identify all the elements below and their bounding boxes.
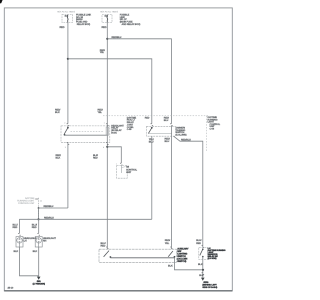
svg-text:BLU: BLU [164,119,169,122]
fuse F2 [106,15,109,23]
dimmer switch dashed box [147,126,176,136]
border frame [4,8,232,291]
node connector junction [38,207,40,209]
svg-text:RED: RED [196,242,201,245]
relay pin 1 tick [106,124,109,126]
aux switch pins [202,246,205,248]
ground G1 arrow [37,277,41,280]
svg-text:(LT FENDER): (LT FENDER) [33,282,46,285]
node branch junction on B [106,146,108,148]
svg-text:BLK: BLK [33,250,38,253]
wire branch to sensor [107,147,121,163]
svg-text:BLK: BLK [198,263,203,266]
fuse F1 [66,15,69,23]
sensor leader [122,166,126,169]
svg-text:CONTROL UNIT: CONTROL UNIT [18,202,35,205]
left headlight drop [18,219,20,233]
wire A lower: relay to corner y208 [67,143,69,209]
right headlight drop [38,219,40,233]
ground G2 arrow [201,278,205,281]
headlamp switch dashed box [99,249,176,262]
wire RH to ground [38,247,40,277]
wire H3 y208 [39,207,68,209]
svg-text:UNIT: UNIT [126,171,132,174]
svg-text:(LH SIDE): (LH SIDE) [208,257,217,260]
svg-text:RED: RED [101,245,106,248]
svg-text:RED/BLU: RED/BLU [112,36,122,39]
dimmer wire C through [170,126,172,137]
svg-text:BLK: BLK [199,274,204,277]
svg-text:AND RELAY BOX): AND RELAY BOX) [122,23,141,26]
svg-text:BLK: BLK [55,111,60,114]
border bottom heavy [4,290,232,292]
relay coil [106,127,108,135]
node A junction dot y59 [67,58,69,60]
pole 2 arm [168,251,173,257]
svg-text:BLU: BLU [165,140,170,143]
svg-text:2B-10: 2B-10 [8,286,14,289]
wire LH to ground [20,247,39,276]
svg-text:BLK: BLK [14,250,19,253]
relay common bar [65,134,108,136]
relay linkage dashed [71,130,104,132]
wire B vertical x107 fuse2 to switch [106,22,108,248]
svg-text:RED: RED [93,156,98,159]
headlamp switch top pins [106,247,109,249]
wire H1 y39 to right corner [107,39,171,124]
aux exit wire [202,257,204,278]
svg-text:RED: RED [145,116,150,119]
dimmer pins [151,124,154,126]
wire H4 y219 [19,218,151,220]
headlight RH bulb [35,237,42,247]
svg-text:YEL: YEL [98,111,103,114]
fuse F2 dashed box [102,14,112,22]
node join [202,269,204,271]
svg-text:RED: RED [60,26,65,29]
dashed leader to control unit text [103,115,210,117]
wire A vertical x68 fuse1 to relay [67,22,69,123]
svg-text:LH: LH [24,240,27,243]
headlight LH bulb [16,237,23,247]
svg-text:RED: RED [32,226,37,229]
svg-text:HOT AT ALL TIMES: HOT AT ALL TIMES [100,11,118,14]
svg-text:YEL: YEL [165,242,170,245]
wire H2 y59 to right corner [68,59,152,124]
svg-text:YEL: YEL [100,51,105,54]
aux switch arm [202,248,204,250]
svg-text:RH: RH [43,240,47,243]
dimmer inner bar [149,132,172,134]
fuse F1 dashed box [62,14,73,22]
relay switch arm [67,126,69,128]
svg-text:BLK: BLK [56,156,61,159]
wire C lower to switch [170,136,172,248]
wire E diagonal exit [174,136,203,247]
node B junction dot y39 [106,38,108,40]
svg-text:BLK/: BLK/ [93,154,98,157]
wire from connector down [38,208,40,219]
sensor dashed box [117,165,128,178]
svg-text:RED: RED [13,226,18,229]
node H3/H4 junction [37,218,39,220]
svg-text:RELAY: RELAY [127,121,135,124]
svg-text:RED/BLU: RED/BLU [44,216,54,219]
pole 1 arm [104,251,109,257]
svg-text:RELAY BOX): RELAY BOX) [77,23,91,26]
aux switch dashed box [199,248,208,260]
svg-text:BLK: BLK [168,265,173,268]
relay pin 2 tick [67,124,70,126]
branch pin ticks [120,163,123,165]
common bar [110,257,174,259]
DRL connector dashed line [37,198,39,218]
relay K1 dashed box [61,126,110,142]
relay bottom pins [67,143,70,145]
dimmer switch arm [151,127,153,129]
svg-text:SWITCH): SWITCH) [177,260,186,263]
switch exit wire [175,258,204,270]
corner scan mark [0,0,3,3]
svg-text:RED/BLU: RED/BLU [181,138,191,141]
svg-text:HOT AT ALL TIMES: HOT AT ALL TIMES [57,11,75,14]
svg-text:SIDE OF DASH): SIDE OF DASH) [202,286,217,289]
svg-text:BOX): BOX) [111,131,117,134]
svg-text:RED/BLU: RED/BLU [44,205,54,208]
svg-text:BLU: BLU [149,140,154,143]
svg-text:(COLUMN): (COLUMN) [176,134,187,137]
wire D lower to corner y219 [151,136,153,219]
svg-text:RED: RED [102,26,107,29]
sensor inner wire [120,165,122,173]
